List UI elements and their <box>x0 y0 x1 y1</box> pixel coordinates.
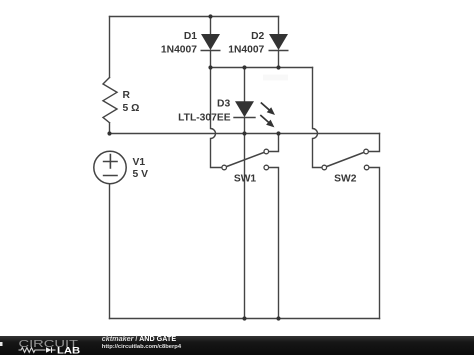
diode D2 cathode bar <box>269 50 289 52</box>
junction dot bottom rail SW1 <box>276 316 280 320</box>
voltage source V1 <box>94 151 126 183</box>
LED D3 light arrow 2 <box>260 115 269 123</box>
wire right branch to SW2 with hop over middle bus <box>313 68 322 168</box>
LED D3 light arrow 1 <box>261 103 270 111</box>
junction dot middle bus D3 <box>242 131 246 135</box>
logo diode symbol <box>46 347 51 353</box>
junction dot bottom rail D3 <box>242 316 246 320</box>
diode D1 body <box>201 34 220 50</box>
switch SW2 pole contact <box>322 165 327 170</box>
junction dot bus D3 <box>242 65 246 69</box>
LED D3 arrow 1 head <box>267 107 275 115</box>
switch SW1 arm <box>227 153 264 167</box>
wire top bus <box>110 16 279 18</box>
junction dot top D1 <box>208 14 212 18</box>
junction dot bus D1 <box>208 65 212 69</box>
svg-text:cktmaker / AND GATE: cktmaker / AND GATE <box>102 334 177 343</box>
LED D3 arrow 2 head <box>266 120 274 128</box>
diode D2 cathode wire <box>278 50 280 67</box>
wire resistor to node <box>109 123 111 134</box>
junction dot middle bus SW1 throw <box>276 131 280 135</box>
logo terminal mark left edge <box>0 342 3 346</box>
diode D1 cathode bar <box>201 50 221 52</box>
diode D2 anode wire <box>278 17 280 35</box>
wire middle bus (node B) <box>110 133 380 135</box>
diode D1 cathode wire <box>210 50 212 67</box>
junction dot node B left <box>107 131 111 135</box>
wire left vertical (top to resistor) <box>109 17 111 78</box>
switch SW1 pole contact <box>222 165 227 170</box>
wire SW1 lower throw to bottom rail <box>269 168 279 319</box>
LED D3 cathode bar <box>233 117 255 119</box>
svg-text:http://circuitlab.com/c8berp4: http://circuitlab.com/c8berp4 <box>102 344 182 350</box>
LED D3 anode wire <box>244 68 246 102</box>
logo resistor squiggle <box>19 348 46 353</box>
wire SW2 upper throw to middle bus end <box>369 134 380 152</box>
wire diode output bus <box>211 67 313 69</box>
footer bar <box>0 336 474 355</box>
switch SW2 lower throw contact <box>364 165 369 170</box>
LED D3 body <box>235 101 254 117</box>
resistor R <box>103 78 117 123</box>
wire SW1 upper throw to middle bus <box>269 134 279 152</box>
LED D3 cathode wire to bottom rail <box>244 118 246 319</box>
switch SW1 lower throw contact <box>264 165 269 170</box>
svg-text:LAB: LAB <box>57 346 80 355</box>
wire V1 bottom to ground rail <box>109 184 111 319</box>
wire bottom rail <box>110 318 380 320</box>
ghost artifact smudge <box>263 75 288 81</box>
diode D1 anode wire <box>210 17 212 35</box>
switch SW1 upper throw contact <box>264 149 269 154</box>
diode D2 body <box>269 34 288 50</box>
wire SW2 lower throw to bottom rail <box>369 168 379 319</box>
wire left branch to SW1 with hop over middle bus <box>211 68 222 168</box>
switch SW2 arm <box>327 153 364 167</box>
junction dot bus D2 <box>276 65 280 69</box>
switch SW2 upper throw contact <box>364 149 369 154</box>
